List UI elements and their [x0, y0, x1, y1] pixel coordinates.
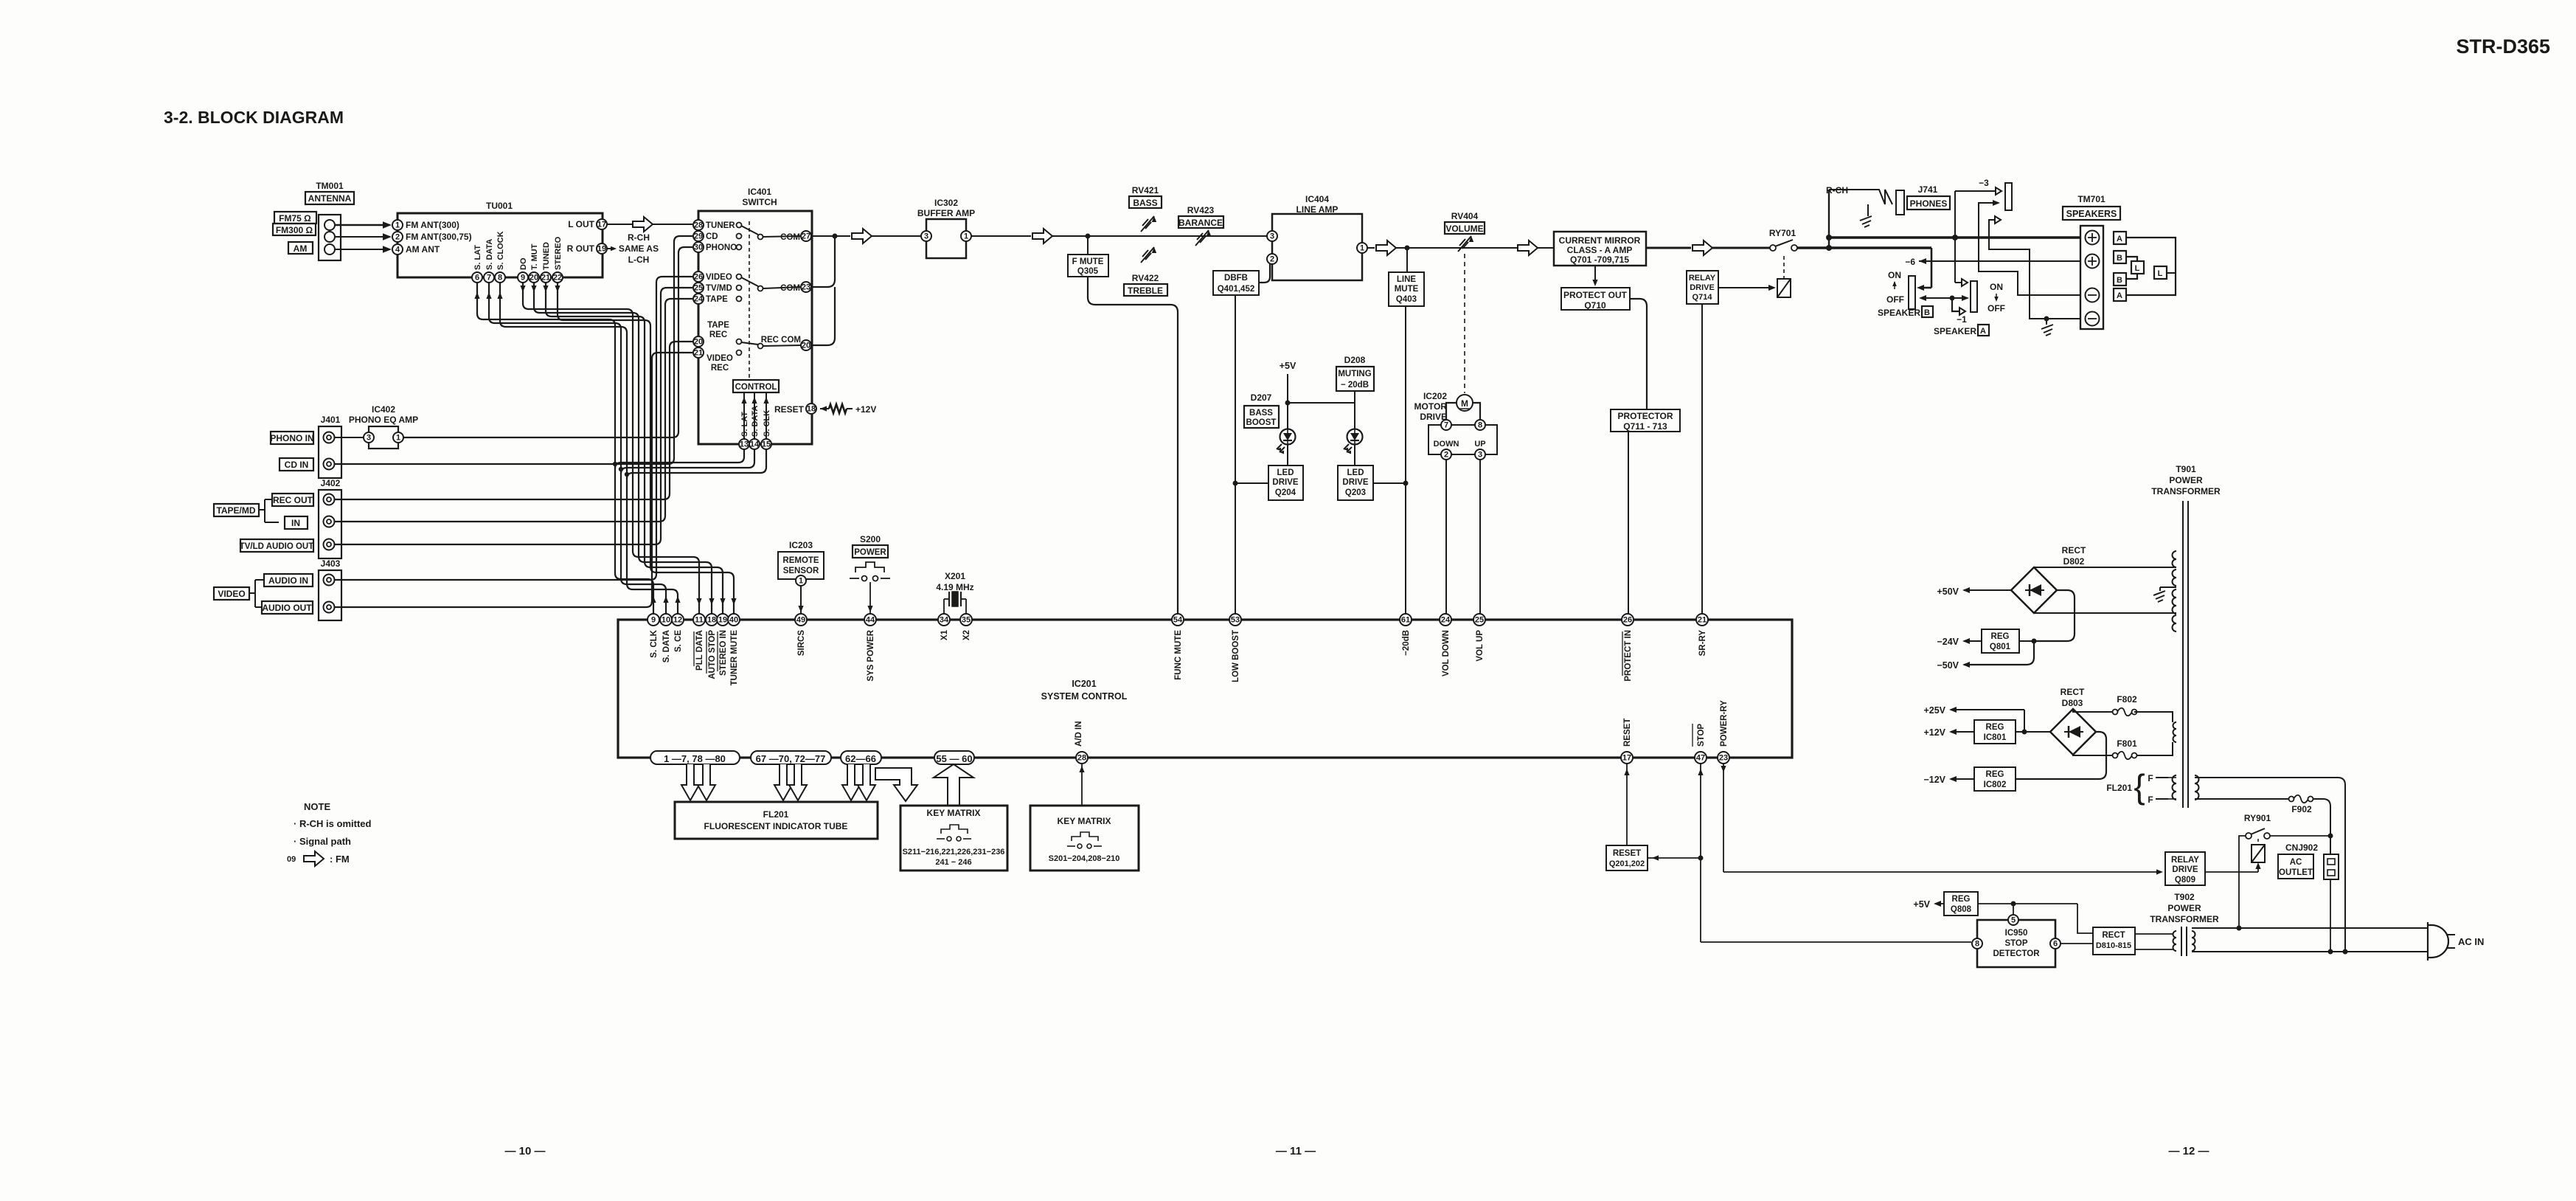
filament supply FL201 label [2106, 767, 2145, 806]
protect out transistor Q710 [1561, 266, 1630, 311]
wire arrow to IC302 [872, 235, 921, 237]
svg-text:Q710: Q710 [1584, 300, 1606, 311]
bus wire S.DATA: TU001 pin7 / IC401 pin14 to IC201 pin10 [486, 283, 754, 614]
bridge rectifier D802 [2011, 567, 2057, 613]
hollow arrow pins67-77 to FL201 a [774, 764, 792, 800]
IC401 left pin 21 VIDEO REC [693, 347, 733, 373]
svg-text:KEY MATRIX: KEY MATRIX [927, 808, 981, 818]
svg-text:28: 28 [1077, 754, 1086, 763]
speaker terminal board TM701 [2063, 194, 2120, 329]
TU001 bottom pins 6 7 8 9 20 21 22 [472, 272, 563, 283]
svg-text:ANTENNA: ANTENNA [308, 193, 352, 204]
T902 transformer [2173, 927, 2195, 956]
svg-text:19: 19 [597, 245, 606, 254]
relay drive Q714 [1687, 271, 1718, 304]
T902 secondary to AC plug bottom [2192, 951, 2428, 952]
svg-text:8: 8 [1478, 421, 1482, 430]
crystal X201 4.19 MHz [936, 571, 973, 592]
svg-text:{: { [2134, 767, 2145, 806]
wire relay drive to IC201 pin 21 SR-RY [1701, 304, 1703, 614]
svg-text:POWER: POWER [2167, 903, 2201, 913]
svg-text:VOL DOWN: VOL DOWN [1442, 630, 1451, 676]
svg-text:FUNC MUTE: FUNC MUTE [1174, 630, 1183, 680]
signal path arrow after volume [1518, 240, 1538, 255]
svg-text:RESET: RESET [1613, 849, 1641, 858]
speaker minus 1 wire to phones bar [1979, 200, 2080, 295]
svg-text:IC801: IC801 [1984, 733, 2007, 742]
svg-text:3: 3 [367, 434, 371, 443]
IC401 wiper control dashed line [749, 221, 750, 378]
svg-text:+50V: +50V [1937, 586, 1959, 597]
svg-text:3: 3 [924, 232, 928, 241]
svg-text:47: 47 [1696, 754, 1705, 763]
svg-text:PHONES: PHONES [1910, 198, 1948, 209]
headphone jack J741 [1896, 184, 1950, 215]
svg-text:FM ANT(300,75): FM ANT(300,75) [406, 232, 472, 242]
svg-text:REC OUT: REC OUT [273, 495, 313, 505]
S200 push switch symbol [850, 562, 890, 581]
svg-text:DRIVE: DRIVE [1342, 478, 1368, 487]
svg-text:REG: REG [1986, 770, 2004, 779]
speaker B bottom box [2114, 273, 2126, 285]
wire Q809 to relay coil [2205, 862, 2261, 872]
svg-text:CD: CD [706, 232, 718, 241]
svg-text:PLL DATA: PLL DATA [695, 630, 704, 671]
bus wire TUNED: TU001 pin21 to IC201 pin19 STEREO IN [543, 283, 725, 614]
svg-text:DRIVE: DRIVE [1272, 478, 1298, 487]
svg-text:25: 25 [694, 284, 703, 293]
svg-text:S211−216,221,226,231−236: S211−216,221,226,231−236 [903, 848, 1005, 856]
svg-text:J403: J403 [321, 558, 341, 569]
svg-text:+12V: +12V [1923, 727, 1945, 738]
ground at speaker terminal [2041, 316, 2053, 336]
fuse F801 [2113, 738, 2137, 759]
reset transistor Q201,202 [1606, 845, 1648, 871]
volume motor M [1457, 395, 1473, 411]
svg-text:COM: COM [780, 233, 800, 242]
svg-text:TRANSFORMER: TRANSFORMER [2151, 486, 2221, 496]
svg-text:Q714: Q714 [1693, 293, 1713, 302]
tuner block TU001 [397, 201, 603, 277]
thick speaker line from RY701 [1797, 245, 1931, 251]
protector Q711-713 [1611, 409, 1680, 432]
variable resistor RV421 BASS [1129, 185, 1162, 232]
wires RECT to T902 coil [2135, 934, 2173, 949]
input switch IC401 [698, 187, 812, 444]
svg-text:1: 1 [396, 434, 400, 443]
svg-text:F902: F902 [2291, 804, 2312, 814]
signal path arrow after L OUT [607, 217, 653, 232]
wire antenna to TU001 pin1 [335, 221, 392, 229]
svg-text:ON: ON [1990, 282, 2003, 292]
IC201 bottom pins 17 47 23 [1621, 752, 1729, 764]
svg-text:D207: D207 [1251, 392, 1272, 403]
svg-text:53: 53 [1231, 616, 1240, 625]
svg-text:A/D IN: A/D IN [1075, 721, 1083, 747]
line amp IC404 [1267, 194, 1367, 280]
svg-text:VIDEO: VIDEO [706, 273, 732, 282]
motor drive IC202 box [1428, 425, 1497, 454]
IC401 pin 27 COM [763, 231, 811, 242]
thick wire to speaker + terminal 1 [1826, 235, 2080, 240]
svg-text:RV422: RV422 [1132, 273, 1159, 283]
wire bridge D803 top via F802 to coil [2073, 709, 2173, 722]
svg-text:44: 44 [866, 616, 875, 625]
led drive transistor Q204 [1268, 465, 1303, 500]
speaker A ON OFF labels [1987, 282, 2005, 314]
wire STOP pin to IC950 pin 8 [1698, 764, 1971, 942]
svg-text:IC201: IC201 [1072, 679, 1096, 689]
power switch S200 [853, 534, 888, 558]
svg-text:AUDIO IN: AUDIO IN [268, 575, 308, 586]
wire T901 mains bottom via F902 [2195, 798, 2289, 800]
IC401 control wires to pins 13 14 15 [741, 392, 768, 439]
svg-text:S. LAT: S. LAT [473, 245, 482, 270]
wire REC OUT to IC401 pin 20 [335, 342, 692, 499]
svg-text:9: 9 [521, 274, 525, 283]
svg-text:VOL UP: VOL UP [1476, 630, 1485, 662]
svg-text:F801: F801 [2117, 738, 2137, 749]
svg-text:— 12 —: — 12 — [2168, 1145, 2209, 1157]
speaker switch A bar [1971, 281, 1977, 312]
antenna terminal connector [319, 215, 341, 260]
buffer amp IC302 [917, 198, 975, 258]
svg-text:REMOTE: REMOTE [782, 556, 819, 565]
svg-text:Q808: Q808 [1951, 905, 1972, 914]
svg-text:4.19 MHz: 4.19 MHz [936, 582, 973, 592]
tap -3 wire to phones switch bar [1955, 178, 2002, 195]
svg-text:−24V: −24V [1937, 637, 1959, 647]
svg-text:19: 19 [718, 616, 727, 625]
svg-text:NOTE: NOTE [304, 801, 330, 812]
wire REC COM riser [811, 287, 835, 345]
svg-text:POWER-RY: POWER-RY [1720, 700, 1729, 747]
page number 12 [2168, 1145, 2209, 1157]
phono eq amp IC402 label [349, 404, 418, 425]
svg-text:Q403: Q403 [1396, 295, 1417, 304]
power transformer T901 label [2151, 464, 2221, 496]
svg-text:T902: T902 [2174, 892, 2195, 902]
svg-text:S. CLOCK: S. CLOCK [496, 231, 505, 270]
svg-text:4: 4 [395, 246, 400, 255]
svg-text:Q711 - 713: Q711 - 713 [1623, 421, 1667, 432]
bus wire S.CLK: TU001 pin8 / IC401 pin15 to IC201 pin12 [497, 283, 766, 614]
jack TV/LD AUDIO OUT [240, 539, 335, 553]
svg-text:SENSOR: SENSOR [783, 567, 819, 575]
wire arrow to relay RY701 [1712, 247, 1770, 249]
speaker minus 2 wire with tap arrow [1989, 216, 2080, 319]
svg-text:S. CLK: S. CLK [763, 410, 771, 437]
IC201 pin 28 A/D IN [1075, 721, 1088, 764]
+50V output [1937, 586, 2011, 597]
svg-text:D208: D208 [1344, 355, 1366, 365]
IC201 bottom pin labels [1623, 700, 1729, 747]
phones mute switch bar [2005, 183, 2012, 210]
svg-text:REG: REG [1952, 895, 1971, 904]
svg-text:J741: J741 [1918, 184, 1938, 195]
svg-text:TAPE: TAPE [706, 295, 728, 304]
relay RY701 coil [1777, 279, 1791, 297]
svg-text:OUTLET: OUTLET [2279, 868, 2313, 877]
jack AUDIO OUT [262, 601, 335, 614]
svg-text:7: 7 [487, 274, 491, 283]
TU001 pin 17 L OUT [568, 219, 607, 229]
speaker B ON OFF labels [1886, 270, 1904, 305]
volume motor dashed link [1464, 254, 1465, 393]
rectifier D810-815 [2093, 927, 2135, 955]
wire IC203 to SIRCS pin [798, 586, 803, 614]
wire arrow to tone controls [1052, 235, 1267, 237]
svg-text:A: A [1980, 327, 1986, 336]
svg-text:STOP: STOP [1697, 724, 1706, 747]
FM300 ohm terminal label [273, 224, 316, 235]
wire arrow to current mirror [1538, 247, 1554, 249]
svg-text:IC302: IC302 [934, 198, 958, 208]
IC201 top pin labels [650, 629, 1707, 685]
rectifier D802 label [2062, 545, 2086, 567]
variable resistor RV423 BARANCE [1178, 205, 1223, 246]
svg-text:18: 18 [807, 405, 816, 414]
svg-text:22: 22 [553, 274, 562, 283]
bridge rectifier D803 [2050, 709, 2096, 755]
IC201 bottom stadium pins 55-60 [934, 751, 974, 764]
title STR-D365 [2456, 35, 2550, 58]
jack AUDIO IN [264, 574, 335, 586]
svg-text:D810-815: D810-815 [2096, 941, 2131, 950]
svg-text:SAME AS: SAME AS [619, 243, 659, 254]
T901 mains coil right [2195, 775, 2199, 800]
svg-text:FM75 Ω: FM75 Ω [279, 213, 311, 224]
wire COM23 riser to main line [811, 234, 838, 288]
speaker A bottom box [2114, 288, 2126, 301]
svg-text:TAPE: TAPE [707, 321, 729, 330]
svg-text:28: 28 [694, 221, 703, 230]
svg-text:−6: −6 [1905, 257, 1915, 267]
svg-text:PHONO: PHONO [706, 243, 737, 252]
svg-text:TU001: TU001 [486, 201, 513, 211]
svg-text:L: L [2158, 269, 2163, 278]
T901 filament coil left [2168, 775, 2176, 800]
regulator IC801 [1974, 720, 2050, 744]
svg-text:09: 09 [287, 855, 296, 864]
wire CD IN to IC401 pin 29 [335, 236, 692, 464]
svg-text:RV423: RV423 [1187, 205, 1215, 215]
svg-text:+5V: +5V [1913, 899, 1930, 910]
svg-text:BARANCE: BARANCE [1178, 218, 1223, 228]
svg-text:LOW BOOST: LOW BOOST [1232, 630, 1240, 682]
T901 core [2183, 501, 2188, 808]
signal path arrow after IC401 [852, 229, 872, 243]
junction dot F MUTE [1086, 234, 1091, 239]
svg-text:12: 12 [673, 616, 682, 625]
svg-text:L OUT: L OUT [568, 219, 594, 229]
svg-text:RESET: RESET [1623, 719, 1632, 747]
svg-text:2: 2 [1270, 255, 1274, 264]
svg-text:SPEAKERS: SPEAKERS [2066, 209, 2117, 219]
page number 11 [1276, 1145, 1316, 1157]
svg-text:PHONO IN: PHONO IN [270, 433, 313, 443]
svg-text:3-2. BLOCK DIAGRAM: 3-2. BLOCK DIAGRAM [164, 108, 344, 127]
SPKR-A top contact wire [1955, 191, 1968, 286]
svg-text:8: 8 [1975, 940, 1979, 949]
svg-text:B: B [1924, 308, 1930, 317]
svg-text:61: 61 [1401, 616, 1410, 625]
IC201 bottom stadium pins 67-70,72-77 [751, 751, 831, 764]
relay RY901 contacts [2244, 813, 2330, 839]
svg-text:20: 20 [802, 342, 810, 350]
wire RY901 to T902 primary [2237, 836, 2246, 931]
svg-text:J402: J402 [321, 478, 341, 488]
key matrix S211-246 box [900, 806, 1007, 871]
wire COM27 to buffer amp [811, 235, 850, 237]
svg-text:S. LAT: S. LAT [740, 412, 749, 437]
svg-text:AC: AC [2290, 858, 2302, 867]
svg-text:POWER: POWER [2169, 475, 2203, 485]
wire bridge D802 bottom to coil [2034, 612, 2176, 614]
svg-text:SR-RY: SR-RY [1698, 630, 1707, 657]
svg-text:SYSTEM CONTROL: SYSTEM CONTROL [1041, 691, 1128, 702]
svg-text:STEREO: STEREO [554, 236, 563, 270]
svg-text:— 10 —: — 10 — [504, 1145, 545, 1157]
svg-text:S. DATA: S. DATA [751, 406, 760, 437]
svg-text:TM701: TM701 [2077, 194, 2105, 204]
IC401 left pin 20 TAPE REC [693, 321, 729, 347]
led drive transistor Q203 [1338, 465, 1373, 500]
wire TV/LD to IC401 pin 25 [335, 288, 692, 544]
jack REC OUT [272, 494, 335, 506]
FM75 ohm terminal label [274, 212, 316, 224]
IC401 left pins 26 25 24 VIDEO TV/MD TAPE [693, 271, 732, 304]
wire bridge D802 to REG Q801 [2032, 590, 2075, 644]
AC IN plug [2428, 922, 2484, 961]
svg-text:POWER: POWER [854, 548, 886, 557]
jack board J402 [319, 478, 341, 558]
svg-text:M: M [1461, 398, 1468, 409]
TU001 pin 4 AM ANT [392, 244, 440, 255]
IC401 pin 23 COM [763, 282, 811, 293]
wire DBFB to IC201 pin 53 LOW BOOST [1233, 295, 1238, 614]
wire POWER-RY to relay drive Q809 [1721, 764, 2163, 875]
hollow bent arrow pins62-66 to key matrix [875, 768, 917, 801]
wire low boost line to Q204 [1235, 482, 1268, 484]
svg-text:B: B [2117, 254, 2122, 263]
svg-text:241 − 246: 241 − 246 [935, 858, 971, 867]
svg-text:21: 21 [1698, 616, 1707, 625]
svg-text:S200: S200 [860, 534, 881, 544]
svg-text:SWITCH: SWITCH [742, 197, 777, 207]
IC401 control wire labels S.LAT S.DATA S.CLK [740, 406, 771, 437]
IC401 pins 13 14 15 [739, 439, 771, 449]
svg-text:A: A [2117, 235, 2122, 243]
speaker load L2 box [2154, 266, 2167, 279]
svg-text:RECT: RECT [2061, 687, 2085, 697]
svg-text:26: 26 [1623, 616, 1632, 625]
svg-text:FL201: FL201 [2106, 783, 2132, 793]
wire F801 to bridge D803 bottom [2073, 755, 2113, 755]
speaker B loop wires [2126, 257, 2137, 279]
svg-text:40: 40 [729, 616, 738, 625]
wire antenna to TU001 pin4 [335, 246, 392, 253]
svg-text:MUTE: MUTE [1395, 285, 1419, 294]
svg-text:RV404: RV404 [1451, 211, 1479, 221]
key matrix 2 switch list [1049, 854, 1120, 863]
svg-text:9: 9 [651, 616, 656, 625]
svg-text:KEY MATRIX: KEY MATRIX [1058, 816, 1111, 826]
IC401 pin 18 RESET with +12V resistor [774, 404, 876, 415]
wire bridge D803 right to REG IC802 [2016, 732, 2106, 779]
svg-text:2: 2 [395, 233, 400, 242]
wire IN to IC401 pin 24 [335, 299, 692, 522]
T901 primary coils upper [2173, 551, 2177, 631]
current mirror class A amp Q701-709,715 [1554, 232, 1646, 266]
bus wire DO: TU001 pin9 to IC201 pin11 PLL DATA [520, 283, 701, 614]
svg-text:20: 20 [530, 274, 538, 283]
rectifier D803 label [2061, 687, 2085, 708]
terminal minus 2 [2086, 312, 2100, 326]
wire AUDIO IN to IC401 pin 26 [335, 277, 692, 580]
svg-text:AUDIO OUT: AUDIO OUT [262, 603, 312, 613]
svg-text:S. DATA: S. DATA [662, 630, 671, 662]
svg-text:MUTING: MUTING [1338, 370, 1371, 378]
svg-text:3: 3 [1478, 451, 1482, 460]
jack CD IN [280, 458, 335, 471]
LED bass boost indicator [1277, 429, 1296, 454]
svg-text:34: 34 [940, 616, 949, 625]
AC outlet connector symbol [2324, 854, 2339, 955]
svg-text:26: 26 [694, 273, 703, 282]
svg-text:SPEAKER: SPEAKER [1934, 326, 1976, 336]
wire IC950 pin6 to RECT D810-815 [2061, 943, 2093, 944]
IC202 pin 3 [1475, 449, 1485, 460]
wire arrow to volume [1396, 246, 1552, 251]
svg-text:−1: −1 [1957, 314, 1967, 325]
svg-text:62—66: 62—66 [845, 753, 876, 764]
svg-text:55 — 60: 55 — 60 [936, 753, 972, 764]
relay drive Q809 [2165, 852, 2205, 885]
svg-text:IN: IN [291, 518, 300, 528]
terminal plus 1 [2086, 231, 2100, 245]
R-CH label to phones [1826, 185, 1879, 195]
svg-text:RECT: RECT [2062, 545, 2086, 555]
hollow arrow pins62-66 to FL201 a [842, 764, 860, 800]
svg-text:X2: X2 [962, 630, 971, 640]
speaker load L1 box [2131, 261, 2144, 274]
f mute transistor Q305 [1068, 236, 1108, 277]
svg-text:CLASS - A AMP: CLASS - A AMP [1567, 245, 1633, 255]
svg-text:23: 23 [1719, 754, 1728, 763]
svg-text:OFF: OFF [1886, 294, 1904, 305]
volume control RV404 [1445, 211, 1485, 252]
svg-text:IC802: IC802 [1984, 781, 2007, 789]
svg-text:F: F [2148, 773, 2153, 783]
hollow arrow pins1-7 to FL201 b [698, 764, 715, 800]
TU001 pin 2 FM ANT(300,75) [392, 232, 472, 242]
phones tap vertical [1828, 190, 1830, 248]
svg-text:24: 24 [1441, 616, 1451, 625]
signal path arrow after IC302 [1032, 229, 1052, 243]
svg-text:VIDEO: VIDEO [707, 354, 733, 363]
regulator Q808 [1944, 892, 1978, 916]
svg-text:+12V: +12V [855, 404, 876, 415]
svg-text:RESET: RESET [774, 404, 805, 415]
bus wire S.LAT: TU001 pin6 / IC401 pin13 to IC201 pin9 [474, 283, 744, 614]
title 3-2. BLOCK DIAGRAM [164, 108, 344, 127]
key matrix 1 switch icon [937, 825, 971, 841]
motor wires to driver pins [1446, 403, 1480, 420]
svg-text:RELAY: RELAY [1689, 274, 1716, 283]
svg-text:14: 14 [750, 440, 760, 449]
TU001 pin 19 R OUT [567, 243, 607, 254]
